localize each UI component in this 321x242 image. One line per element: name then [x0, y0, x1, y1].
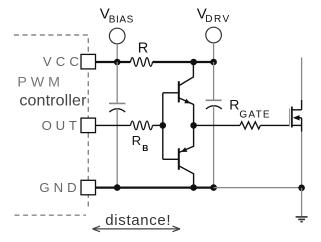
wire driver output to R_GATE [194, 124, 240, 126]
svg-text:GATE: GATE [239, 109, 270, 120]
svg-text:R: R [132, 133, 142, 148]
svg-text:PWM: PWM [17, 75, 60, 91]
wire R_B to base node [153, 124, 163, 126]
PWM controller box (dashed outline) [14, 35, 88, 215]
node emitter junction [190, 122, 197, 129]
wire source to GND [301, 132, 303, 188]
svg-text:R: R [229, 97, 239, 113]
capacitor C_drv [206, 62, 222, 188]
resistor R_GATE [240, 122, 260, 129]
node base junction [160, 122, 167, 129]
capacitor C_bias [109, 62, 125, 188]
wire drain [301, 58, 303, 101]
svg-text:BIAS: BIAS [109, 15, 134, 26]
svg-text:controller: controller [19, 93, 87, 110]
resistor R_B [131, 121, 153, 130]
svg-text:VCC: VCC [43, 54, 79, 69]
supply V_DRV [206, 27, 222, 43]
node C_drv-GND junction [210, 184, 217, 191]
node C_bias-GND junction [114, 184, 121, 191]
svg-text:B: B [142, 143, 148, 153]
resistor R [131, 58, 153, 67]
svg-text:OUT: OUT [42, 118, 77, 133]
svg-text:DRV: DRV [205, 14, 229, 25]
transistor Q1 (NPN) [163, 62, 194, 125]
node V_BIAS junction [114, 59, 121, 66]
node Q1 collector junction [190, 59, 197, 66]
svg-text:R: R [138, 40, 149, 56]
svg-text:GND: GND [39, 180, 76, 195]
node source-GND junction [298, 185, 305, 192]
wire R_GATE to gate [260, 124, 289, 126]
transistor Q3 (MOSFET) [290, 100, 302, 132]
wire GND rail [96, 187, 214, 189]
node Q2 collector-GND junction [190, 184, 197, 191]
transistor Q2 (PNP) [163, 125, 194, 187]
ground [296, 188, 308, 222]
dimension arrow [93, 226, 181, 232]
node V_DRV junction [210, 59, 217, 66]
wire GND extension [214, 187, 302, 189]
supply V_BIAS [109, 28, 125, 44]
wire OUT to R_B [96, 124, 131, 126]
wire base tie [162, 93, 164, 160]
wire VCC rail [96, 61, 214, 63]
svg-text:distance!: distance! [105, 212, 170, 229]
